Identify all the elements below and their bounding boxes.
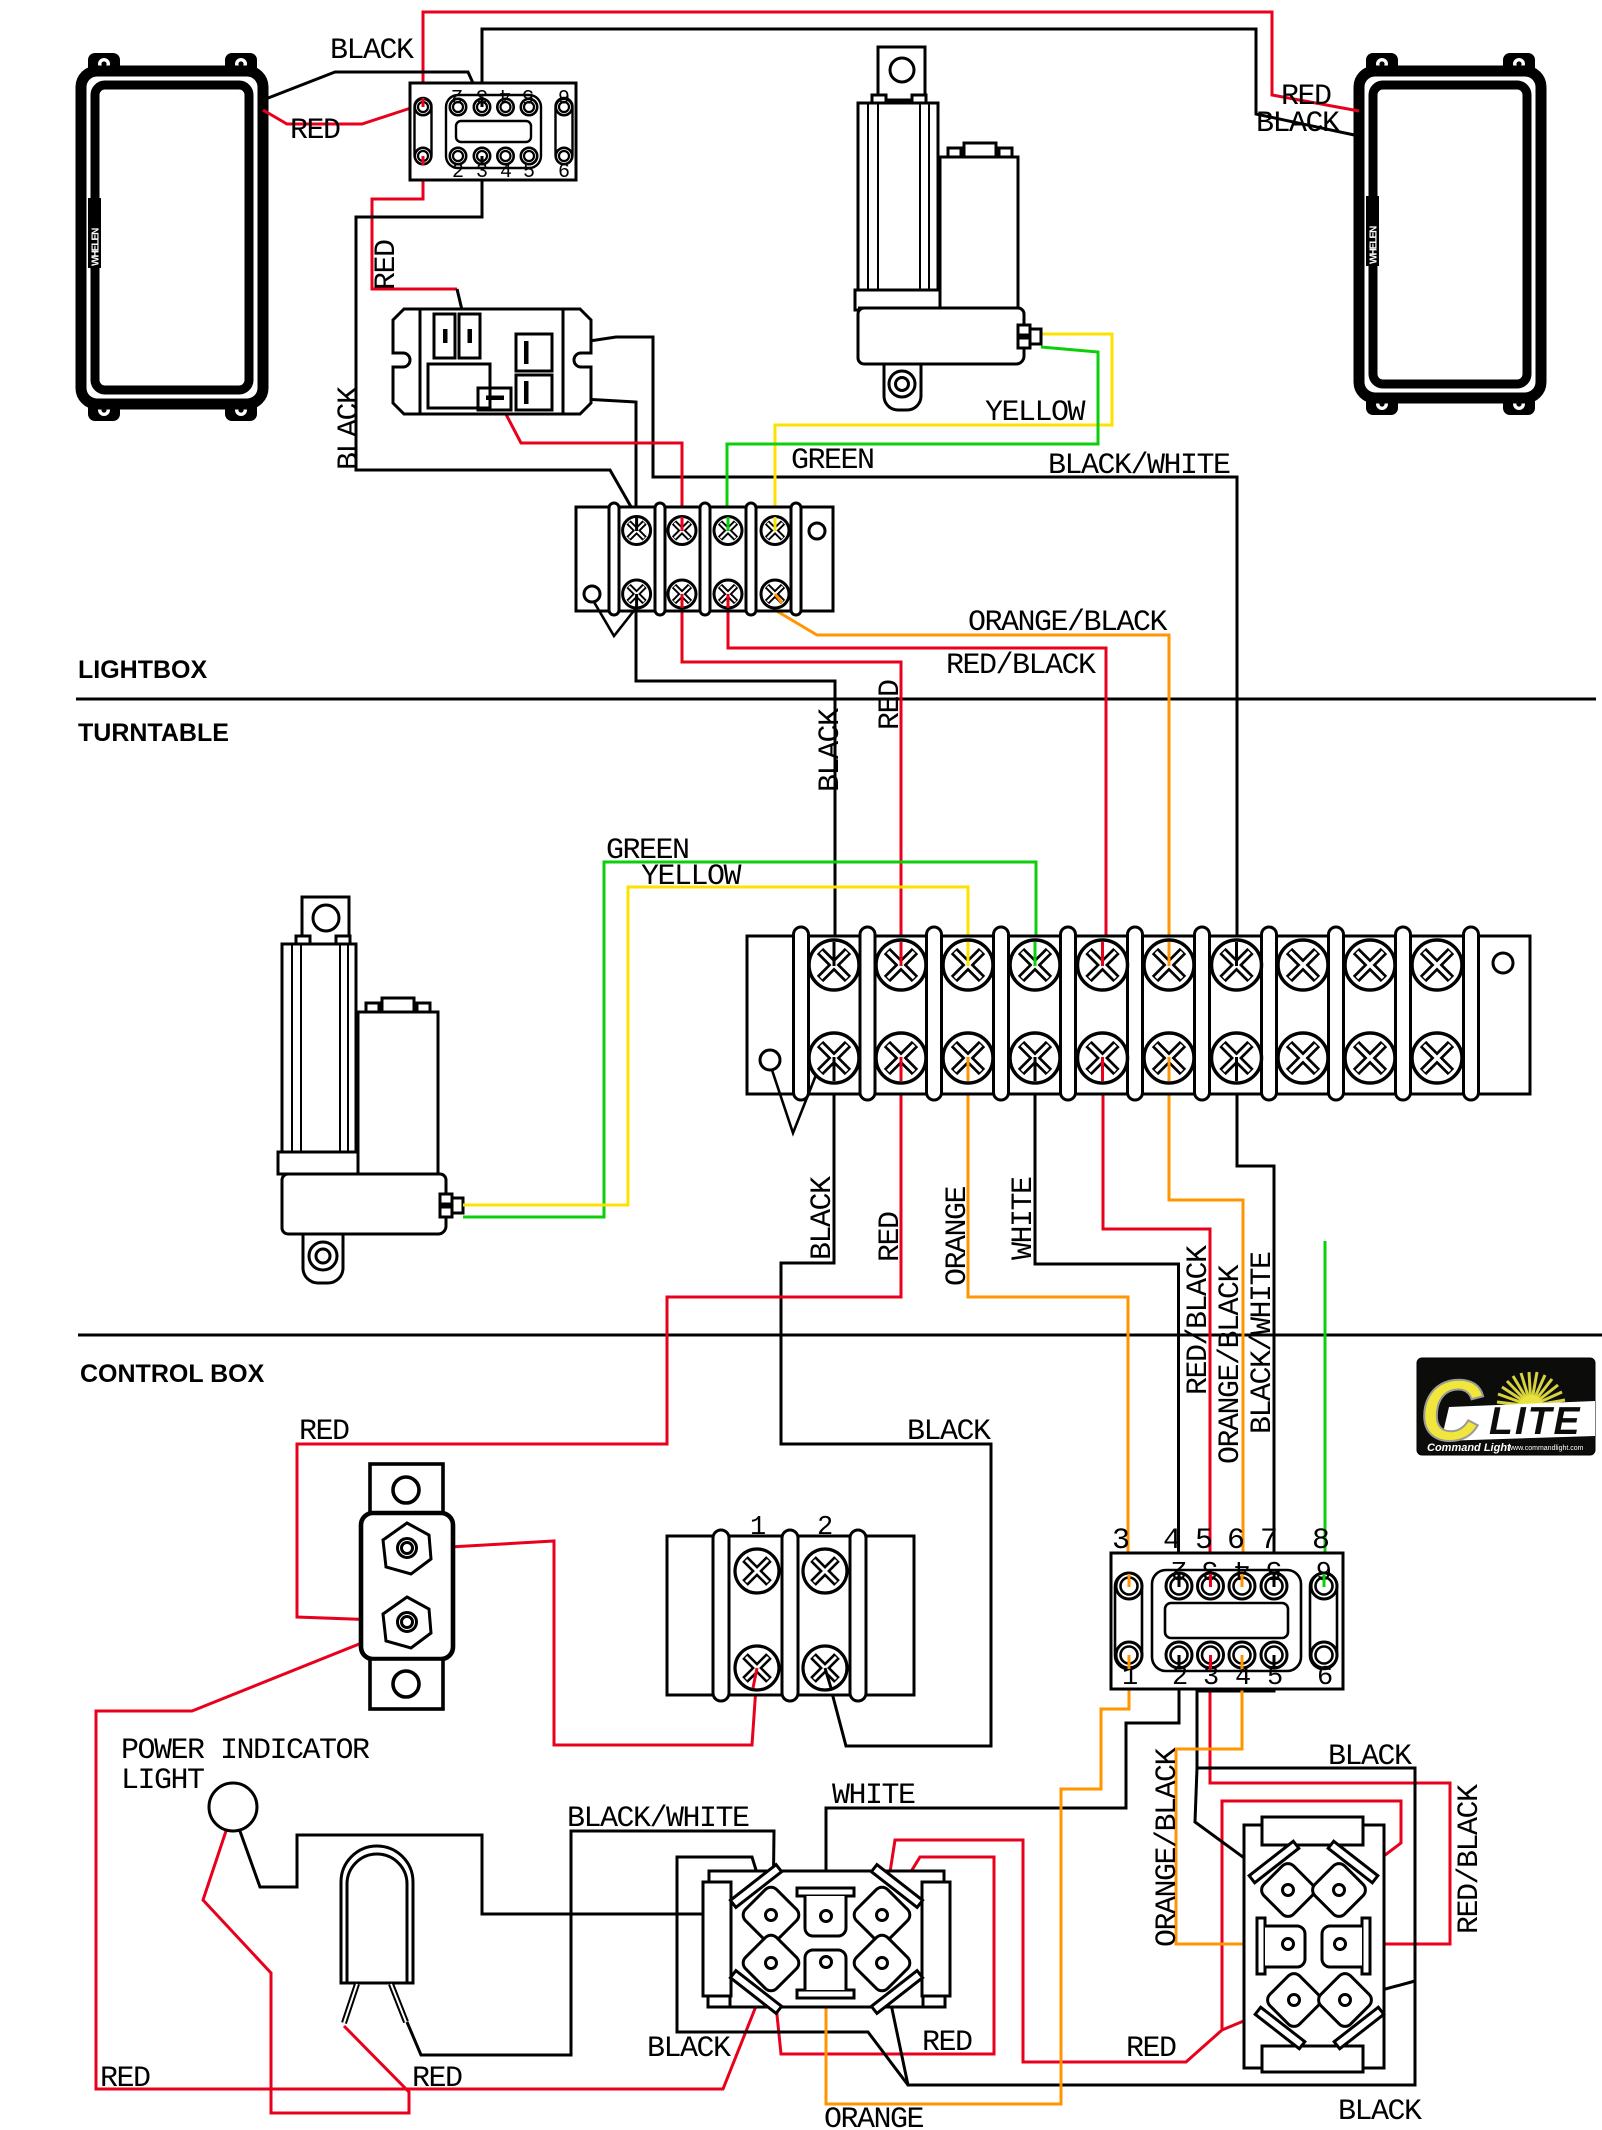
svg-text:WHITE: WHITE <box>1007 1177 1041 1260</box>
svg-text:WHELEN: WHELEN <box>91 228 102 266</box>
svg-text:RED/BLACK: RED/BLACK <box>1453 1784 1487 1934</box>
svg-text:ORANGE: ORANGE <box>941 1186 975 1286</box>
svg-text:RED: RED <box>290 114 340 148</box>
svg-text:BLACK: BLACK <box>814 708 848 792</box>
svg-text:ORANGE: ORANGE <box>824 2103 924 2130</box>
svg-text:2: 2 <box>452 161 463 184</box>
svg-text:BLACK: BLACK <box>1328 1740 1412 1774</box>
svg-text:BLACK: BLACK <box>330 34 414 68</box>
svg-text:RED/BLACK: RED/BLACK <box>946 649 1096 683</box>
svg-text:RED: RED <box>412 2062 462 2096</box>
svg-text:BLACK/WHITE: BLACK/WHITE <box>1048 449 1230 483</box>
svg-text:LITE: LITE <box>1489 1400 1582 1443</box>
svg-text:GREEN: GREEN <box>791 444 874 478</box>
svg-text:4: 4 <box>1163 1524 1180 1558</box>
svg-text:ORANGE/BLACK: ORANGE/BLACK <box>968 606 1168 640</box>
svg-text:BLACK: BLACK <box>1256 107 1340 141</box>
svg-text:RED: RED <box>874 1212 908 1262</box>
svg-text:POWER INDICATOR: POWER INDICATOR <box>121 1734 370 1768</box>
svg-text:LIGHTBOX: LIGHTBOX <box>78 656 207 684</box>
svg-text:RED: RED <box>1126 2032 1176 2066</box>
svg-text:YELLOW: YELLOW <box>641 860 742 894</box>
svg-text:BLACK: BLACK <box>907 1415 991 1449</box>
svg-text:TURNTABLE: TURNTABLE <box>78 719 229 747</box>
svg-text:RED: RED <box>922 2026 972 2060</box>
svg-text:8: 8 <box>1312 1524 1329 1558</box>
svg-text:WHELEN: WHELEN <box>1369 226 1380 264</box>
svg-text:www.commandlight.com: www.commandlight.com <box>1507 1445 1584 1452</box>
svg-text:BLACK: BLACK <box>1338 2095 1422 2129</box>
svg-text:1: 1 <box>750 1513 765 1543</box>
svg-text:WHITE: WHITE <box>832 1779 915 1813</box>
svg-text:6: 6 <box>559 83 570 106</box>
svg-text:6: 6 <box>1227 1524 1244 1558</box>
svg-text:BLACK: BLACK <box>333 386 367 470</box>
svg-text:6: 6 <box>558 161 569 184</box>
svg-text:BLACK/WHITE: BLACK/WHITE <box>567 1802 749 1836</box>
svg-text:LIGHT: LIGHT <box>121 1764 204 1798</box>
svg-text:BLACK/WHITE: BLACK/WHITE <box>1246 1252 1280 1434</box>
svg-text:ORANGE/BLACK: ORANGE/BLACK <box>1214 1264 1248 1464</box>
svg-text:RED: RED <box>874 680 908 730</box>
svg-text:RED: RED <box>370 240 404 290</box>
svg-text:5: 5 <box>523 83 534 106</box>
svg-text:2: 2 <box>817 1513 832 1543</box>
svg-text:4: 4 <box>500 83 511 106</box>
svg-text:Command Light: Command Light <box>1427 1442 1512 1454</box>
svg-text:RED: RED <box>100 2062 150 2096</box>
svg-text:5: 5 <box>523 161 534 184</box>
svg-text:5: 5 <box>1195 1524 1212 1558</box>
svg-text:6: 6 <box>1317 1663 1332 1693</box>
svg-text:RED/BLACK: RED/BLACK <box>1182 1245 1216 1395</box>
svg-text:7: 7 <box>1260 1524 1277 1558</box>
svg-text:YELLOW: YELLOW <box>985 396 1086 430</box>
svg-text:ORANGE/BLACK: ORANGE/BLACK <box>1151 1747 1185 1947</box>
svg-text:2: 2 <box>452 83 463 106</box>
svg-text:BLACK: BLACK <box>806 1176 840 1260</box>
svg-text:4: 4 <box>500 161 511 184</box>
svg-text:BLACK: BLACK <box>647 2032 731 2066</box>
svg-text:3: 3 <box>1112 1524 1129 1558</box>
svg-text:RED: RED <box>299 1415 349 1449</box>
svg-text:CONTROL BOX: CONTROL BOX <box>80 1360 265 1388</box>
